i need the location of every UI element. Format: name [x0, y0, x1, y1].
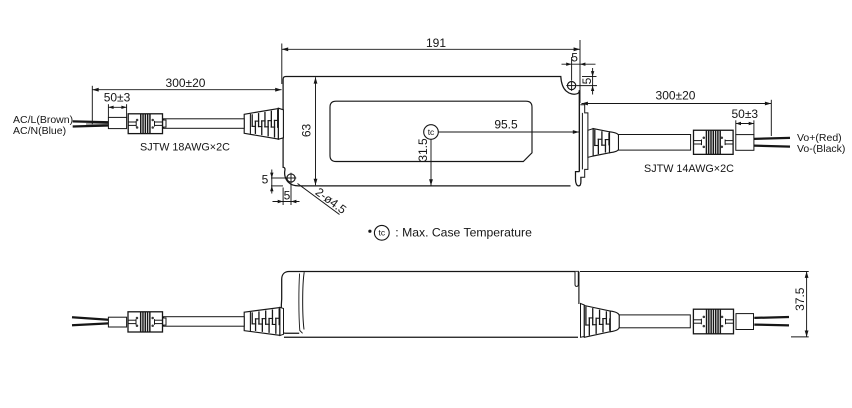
dimension 63 — [299, 77, 317, 185]
svg-text:31.5: 31.5 — [416, 138, 430, 162]
dimension 300+-20 output — [582, 89, 772, 136]
side view right gland — [581, 304, 620, 338]
dimension 31.5 — [416, 138, 433, 186]
svg-text:5: 5 — [284, 188, 291, 202]
svg-text:300±20: 300±20 — [166, 76, 206, 90]
dimension 300+-20 input — [92, 76, 281, 125]
svg-text:191: 191 — [426, 36, 446, 50]
svg-text:SJTW 18AWG×2C: SJTW 18AWG×2C — [140, 141, 230, 153]
input wires — [73, 121, 109, 126]
side view left connector — [108, 312, 166, 332]
dimension 191 — [282, 36, 580, 103]
side view left wires — [72, 317, 108, 325]
side view left cable — [164, 317, 245, 327]
note max case temperature — [368, 225, 532, 240]
svg-text:tc: tc — [428, 127, 435, 137]
dimension 37.5 — [580, 272, 809, 337]
dimension 50+-3 input — [104, 90, 131, 117]
svg-text:63: 63 — [299, 124, 313, 138]
output end bracket — [580, 105, 588, 177]
output cable gland — [588, 129, 619, 158]
svg-text:5: 5 — [580, 77, 594, 84]
svg-text:tc: tc — [378, 228, 385, 238]
svg-text:5: 5 — [571, 51, 578, 65]
side view right wires — [754, 317, 789, 325]
leader 2-dia4.5 — [298, 184, 350, 217]
tc point circle — [424, 125, 439, 140]
svg-text:37.5: 37.5 — [793, 287, 807, 311]
dimension 50+-3 output — [731, 107, 758, 135]
svg-text:SJTW 14AWG×2C: SJTW 14AWG×2C — [644, 163, 734, 175]
mounting hole top-right — [566, 80, 577, 91]
input connector — [108, 114, 166, 134]
dimension 5 horizontal at top-right hole — [562, 51, 596, 80]
svg-text:AC/N(Blue): AC/N(Blue) — [13, 125, 66, 137]
dimension 95.5 — [438, 118, 579, 134]
side view right cable — [619, 315, 690, 328]
svg-text:Vo-(Black): Vo-(Black) — [797, 143, 845, 155]
dimension 5 horizontal below bottom-left hole — [273, 183, 300, 205]
input cable gland — [244, 108, 283, 139]
svg-text:50±3: 50±3 — [104, 90, 131, 104]
side view right connector — [693, 309, 753, 334]
svg-text:95.5: 95.5 — [494, 118, 518, 132]
case body side view — [281, 272, 579, 338]
svg-text:: Max. Case Temperature: : Max. Case Temperature — [395, 226, 532, 240]
dimension 5 vertical at top-right hole — [577, 68, 597, 95]
case body top view — [283, 77, 581, 186]
mounting hole bottom-left — [286, 173, 297, 184]
label area inner rectangle — [330, 101, 532, 161]
output wires — [754, 138, 790, 147]
svg-text:50±3: 50±3 — [731, 107, 758, 121]
side view left gland — [244, 307, 283, 335]
input cable — [164, 119, 245, 129]
output cable — [619, 135, 691, 151]
output connector — [694, 130, 754, 154]
svg-text:300±20: 300±20 — [656, 89, 696, 103]
dimension 5 vertical at bottom-left hole — [262, 170, 286, 194]
svg-text:5: 5 — [262, 172, 269, 186]
